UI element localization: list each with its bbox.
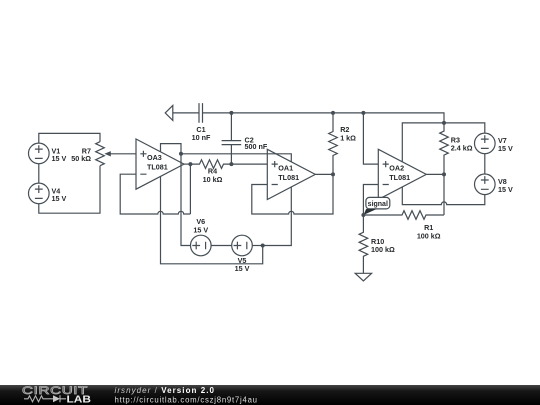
capacitor C2 <box>222 141 242 145</box>
svg-text:TL081: TL081 <box>147 163 168 172</box>
svg-text:TL081: TL081 <box>278 173 299 182</box>
voltage source V6 <box>191 235 212 256</box>
wire V1 to V4 <box>38 164 40 183</box>
wire V5 right to riser <box>252 245 262 247</box>
svg-text:15 V: 15 V <box>193 226 208 235</box>
wire OA3 V+ pin loop <box>161 144 191 246</box>
svg-text:OA1: OA1 <box>278 163 293 172</box>
logo wire symbol <box>24 395 66 402</box>
resistor R10 <box>359 215 368 273</box>
ground <box>355 273 371 281</box>
svg-text:15 V: 15 V <box>498 185 513 194</box>
svg-text:15 V: 15 V <box>235 264 250 273</box>
wire OA1 output <box>315 173 333 175</box>
wire R7 bottom to V4 bottom <box>39 166 100 214</box>
wire V6 to V5 <box>211 245 232 247</box>
svg-text:OA3: OA3 <box>147 153 162 162</box>
voltage source V4 <box>29 183 50 204</box>
node V+ rail junction <box>179 152 183 156</box>
resistor R3 <box>440 123 449 174</box>
node C2 top junction <box>229 111 233 115</box>
svg-text:OA2: OA2 <box>389 163 404 172</box>
capacitor C1 <box>199 103 203 123</box>
svg-text:15 V: 15 V <box>52 154 67 163</box>
node signal flag <box>363 197 389 215</box>
node R2 top junction <box>331 111 335 115</box>
op-amp OA2 <box>378 149 426 199</box>
wire OA3 out stub <box>184 163 190 165</box>
potentiometer R7 <box>96 142 111 166</box>
wire OA2 V+ from rail node <box>402 123 444 162</box>
wire OA3 -in feedback loop <box>120 174 190 214</box>
wire OA3 output down to feedback <box>189 164 191 214</box>
svg-text:500 nF: 500 nF <box>245 142 268 151</box>
wire flag to C1 <box>173 112 199 114</box>
input flag marker <box>165 105 173 120</box>
logo CIRCUIT <box>22 384 88 397</box>
wire rail node to V7 top <box>444 123 485 133</box>
wire OA1 feedback loop <box>252 174 333 214</box>
junction dots <box>179 111 446 248</box>
footer bar <box>0 385 540 405</box>
wire OA2 output <box>426 173 444 175</box>
wire OA2 +in from top rail <box>363 113 378 164</box>
resistor R1 <box>363 211 444 220</box>
node OA1 output junction <box>331 172 335 176</box>
svg-text:50 kΩ: 50 kΩ <box>71 154 91 163</box>
voltage source V8 <box>475 174 496 195</box>
node C2 bottom junction <box>229 162 233 166</box>
voltage source V1 <box>29 143 50 164</box>
logo LAB <box>67 394 92 405</box>
svg-text:100 kΩ: 100 kΩ <box>417 232 441 241</box>
svg-text:signal: signal <box>368 201 388 208</box>
svg-text:2.4 kΩ: 2.4 kΩ <box>451 143 473 152</box>
resistor R2 <box>329 113 338 174</box>
svg-text:100 kΩ: 100 kΩ <box>371 245 395 254</box>
node signal junction <box>361 213 365 217</box>
wire R7 wiper to OA3 +in <box>108 153 136 155</box>
node OA2 +in junction <box>361 111 365 115</box>
svg-text:10 nF: 10 nF <box>192 133 211 142</box>
wire OA3 V- pin to negative rail <box>161 176 263 263</box>
node rail corner junction <box>442 121 446 125</box>
voltage source V7 <box>475 133 496 154</box>
wire OA1 V- riser <box>263 187 292 246</box>
resistor R4 <box>190 160 267 169</box>
op-amp OA1 <box>267 149 315 199</box>
wire V1 top to R7 top <box>39 133 100 143</box>
svg-text:http://circuitlab.com/cszj8n9t: http://circuitlab.com/cszj8n9t7j4au <box>115 396 258 405</box>
node OA2 output junction <box>442 172 446 176</box>
wire V7 to V8 <box>484 154 486 174</box>
svg-text:1 kΩ: 1 kΩ <box>340 134 356 143</box>
wire R1 riser to OA2 output <box>443 174 445 215</box>
node V5 negative junction <box>261 244 265 248</box>
wire positive rail OA3 to OA1 V+ <box>181 154 291 162</box>
svg-text:LAB: LAB <box>67 394 92 405</box>
node OA3 output junction <box>188 162 192 166</box>
svg-text:10 kΩ: 10 kΩ <box>203 175 223 184</box>
wire C2 bottom lead <box>230 145 232 165</box>
wire top rail C1 to corner <box>203 113 445 123</box>
svg-text:irsnyder / Version 2.0: irsnyder / Version 2.0 <box>115 386 215 395</box>
op-amp OA3 <box>136 139 184 189</box>
wire C2 top lead <box>230 113 232 141</box>
svg-text:15 V: 15 V <box>498 144 513 153</box>
voltage source V5 <box>232 235 253 256</box>
wire OA2 V- to V8 bottom <box>402 187 485 205</box>
svg-text:15 V: 15 V <box>52 194 67 203</box>
svg-text:TL081: TL081 <box>389 173 410 182</box>
wire OA2 -in to signal node <box>363 185 378 216</box>
